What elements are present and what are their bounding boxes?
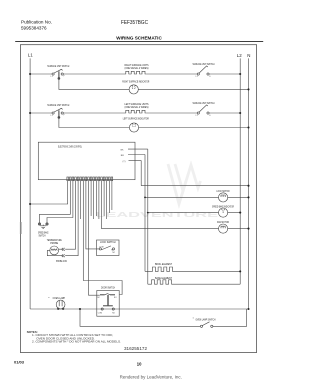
svg-text:2. COMPONENTS WITH * DO NOT: 2. COMPONENTS WITH * DO NOT APPEAR ON AL… (32, 340, 121, 344)
door switch bottom contacts (98, 308, 116, 315)
wire U1 exit BK (128, 148, 148, 150)
wire row Y to N (141, 185, 248, 187)
svg-text:OVEN LAMP: OVEN LAMP (53, 296, 66, 300)
wire riser pin16 stub (106, 181, 108, 219)
junction N indicator2 (247, 126, 249, 128)
wire pilot drop row1 (59, 79, 129, 89)
oven lamp switch S8 (200, 322, 213, 328)
svg-text:SURFACE UNIT SWITCH: SURFACE UNIT SWITCH (47, 103, 69, 107)
wire lamp switch branch (80, 309, 200, 326)
left surface indicator lamp DS2 (129, 123, 138, 132)
svg-text:FEF357BGC: FEF357BGC (121, 20, 148, 26)
junction riser BK indicator (147, 212, 149, 214)
left surface element R2 (124, 110, 147, 113)
wire riser BR (144, 155, 146, 272)
svg-text:PROBE: PROBE (50, 241, 58, 245)
wire pilot drop row2 (59, 118, 129, 127)
junction riser BR lock motor (144, 197, 146, 199)
surface unit switch S4 (196, 105, 212, 117)
wire riser pin3 to speed bake T2 (47, 181, 73, 223)
connector P1 pin strip (67, 177, 113, 181)
wire riser pin12 stub (95, 181, 97, 216)
wire riser pin10 stub (90, 181, 92, 216)
wire switch S2 to L2 (209, 73, 240, 75)
frame border (20, 45, 256, 353)
svg-text:L2: L2 (237, 53, 242, 58)
svg-text:(ONE SIGNAL 2 WIRES): (ONE SIGNAL 2 WIRES) (125, 105, 149, 109)
header rule (15, 41, 263, 43)
svg-text:Rendered by LeadVenture, Inc.: Rendered by LeadVenture, Inc. (120, 374, 182, 379)
wire indicator DS2 to N (139, 127, 249, 129)
junction L1 control feed (29, 203, 31, 205)
wire N rail (248, 58, 250, 309)
svg-text:Publication No.: Publication No. (21, 19, 52, 24)
wire L1 rail (29, 58, 31, 309)
svg-text:BROIL ELEMENT: BROIL ELEMENT (155, 262, 172, 266)
wire riser pin8 to lock switch (86, 181, 99, 249)
wire to speed bake indicator (148, 212, 219, 214)
junction N fan motor (247, 228, 249, 230)
svg-text:(ONE SIGNAL 2 WIRES): (ONE SIGNAL 2 WIRES) (125, 66, 149, 70)
wire switch S1 to element (63, 73, 124, 75)
junction N bottom (247, 308, 249, 310)
svg-text:BR: BR (121, 155, 124, 157)
svg-text:LEADVENTURE: LEADVENTURE (96, 210, 219, 219)
svg-text:SURFACE UNIT SWITCH: SURFACE UNIT SWITCH (193, 101, 215, 105)
speed bake switch S5 (38, 223, 48, 225)
junction N control (247, 185, 249, 187)
wire U1 exit BR (128, 154, 145, 156)
junction L2 row2 (239, 112, 241, 114)
svg-text:ELECTRONIC OVEN CONTROL: ELECTRONIC OVEN CONTROL (58, 144, 82, 148)
right surface indicator lamp DS1 (129, 85, 138, 94)
door switch top contacts (97, 294, 117, 299)
wire lock motor to N (228, 196, 249, 198)
wire switch S4 to L2 (209, 112, 240, 114)
svg-text:RIGHT SURFACE INDICATOR: RIGHT SURFACE INDICATOR (122, 79, 149, 83)
wire U1 exit Y (129, 160, 142, 162)
wire lamp switch to N (213, 309, 247, 326)
junction L2 broil (239, 270, 241, 272)
speed bake indicator lamp DS3 (219, 208, 228, 217)
header publication no (21, 19, 52, 30)
svg-text:WIRING SCHEMATIC: WIRING SCHEMATIC (116, 36, 162, 42)
svg-text:L1: L1 (28, 53, 33, 58)
wire riser pin13 stub (98, 181, 100, 219)
svg-text:DOOR SWITCH: DOOR SWITCH (101, 286, 115, 290)
svg-text:FAN MOTOR: FAN MOTOR (217, 220, 229, 224)
wire riser pin15 stub (103, 181, 105, 216)
surface unit switch S1 (51, 69, 66, 79)
notes block (27, 330, 121, 344)
svg-text:PROBE CON: PROBE CON (56, 261, 67, 263)
temperature probe RT1 (50, 246, 59, 255)
ground symbol speed bake (40, 225, 46, 229)
wire riser pin2 to speed bake T1 (40, 181, 71, 223)
junction L1 row2 (29, 112, 31, 114)
wire riser pin6 stub (80, 181, 82, 219)
svg-text:SWITCH: SWITCH (39, 233, 46, 237)
svg-text:COM: COM (99, 247, 104, 249)
wire riser pin5 to probe lead2 (67, 181, 78, 256)
wire speed bake indicator to L2 (228, 212, 241, 214)
door switch S7 box (97, 291, 119, 317)
watermark logo V (168, 164, 201, 204)
oven lamp DS4 (56, 300, 65, 310)
door switch plunger (103, 295, 113, 306)
broil element R3 (145, 267, 240, 271)
svg-text:SURFACE UNIT SWITCH: SURFACE UNIT SWITCH (47, 64, 69, 68)
junction L2 row1 (239, 73, 241, 75)
junction L1 row1 (29, 73, 31, 75)
probe connector leads (47, 248, 67, 257)
junction N indicator1 (247, 88, 249, 90)
wire indicator DS1 to N (138, 88, 248, 90)
wire riser pin18 stub (111, 181, 113, 210)
wire row2 L1 to switch S3 (30, 112, 52, 114)
svg-text:COM: COM (98, 312, 103, 314)
wire riser pin9 to door switch (89, 181, 100, 296)
svg-text:LOCK SWITCH: LOCK SWITCH (100, 240, 116, 244)
wire fan row from riser (102, 181, 219, 229)
lock motor B1 (219, 193, 228, 202)
surface unit switch S2 (196, 66, 212, 78)
wire riser pin11 stub (93, 181, 95, 219)
wire element to switch S2 (147, 73, 197, 75)
svg-text:(Y): (Y) (123, 161, 126, 163)
junction L2 speed bake indicator (239, 212, 241, 214)
wire riser pin17 stub (108, 181, 110, 213)
wire element to switch S4 (147, 112, 197, 114)
wire fan motor to N (228, 228, 249, 230)
svg-text:5995384376: 5995384376 (21, 25, 47, 30)
wire switch S3 to element (63, 112, 124, 114)
electronic oven control U1 (38, 142, 135, 180)
junction N lock motor (247, 196, 249, 198)
junction lamp branch (79, 308, 81, 310)
watermark wordmark (96, 210, 219, 219)
wire riser pin4 to probe lead1 (67, 181, 76, 250)
wire row1 L1 to switch S1 (30, 73, 52, 75)
right surface element R1 (124, 71, 147, 74)
svg-text:316255172: 316255172 (124, 346, 147, 351)
wire riser pin7 wrap to door switch (83, 181, 122, 295)
wire bottom main L1 to N (30, 308, 248, 310)
svg-text:SURFACE UNIT SWITCH: SURFACE UNIT SWITCH (193, 62, 215, 66)
svg-text:LOCK MOTOR: LOCK MOTOR (217, 189, 230, 193)
lock switch contacts (99, 246, 116, 254)
lock switch S6 box (97, 240, 120, 256)
wire riser Y (140, 161, 142, 186)
svg-text:N: N (247, 53, 250, 58)
svg-text:01/03: 01/03 (14, 360, 25, 365)
svg-text:OVEN LAMP SWITCH: OVEN LAMP SWITCH (196, 317, 216, 321)
bake element R4 (148, 280, 240, 284)
svg-text:LEFT SURFACE INDICATOR: LEFT SURFACE INDICATOR (123, 117, 149, 121)
fan motor B2 (219, 224, 228, 233)
svg-text:10: 10 (137, 362, 142, 367)
wire to lock motor (145, 196, 219, 198)
surface unit switch S3 (51, 108, 66, 118)
wire riser pin1 to L1 (30, 181, 68, 204)
wire L2 rail (239, 58, 241, 284)
wire riser BK (147, 149, 149, 284)
scan smudge on frame (20, 222, 22, 234)
